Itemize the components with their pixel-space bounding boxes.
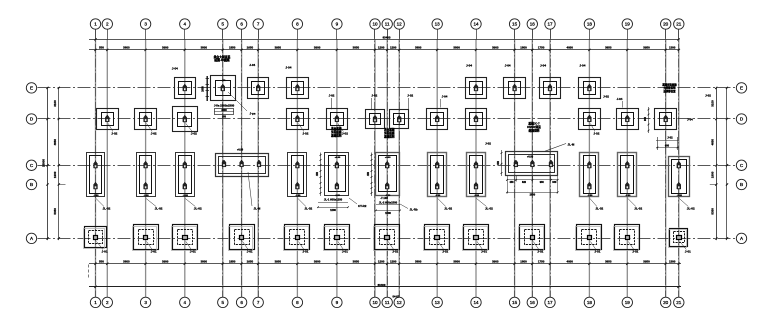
svg-text:J-04: J-04 (617, 97, 623, 101)
svg-text:J-01: J-01 (102, 250, 108, 254)
svg-text:后浇带位置: 后浇带位置 (663, 89, 677, 93)
svg-text:-1.50: -1.50 (587, 195, 593, 197)
svg-text:330: 330 (552, 181, 557, 184)
svg-text:JL-M: JL-M (254, 207, 261, 211)
svg-text:63400: 63400 (378, 283, 386, 287)
svg-text:16: 16 (530, 300, 536, 305)
svg-text:7: 7 (257, 300, 260, 305)
svg-text:18: 18 (587, 22, 593, 27)
svg-text:19: 19 (625, 22, 631, 27)
svg-text:1750: 1750 (538, 46, 545, 50)
svg-text:2: 2 (106, 300, 109, 305)
svg-text:-1.50: -1.50 (474, 195, 480, 197)
svg-text:J-01: J-01 (342, 250, 348, 254)
svg-text:承台基础: 承台基础 (331, 127, 342, 131)
svg-text:6: 6 (240, 22, 243, 27)
svg-text:3800: 3800 (415, 46, 422, 50)
svg-text:2300: 2300 (221, 109, 227, 112)
svg-text:1200: 1200 (390, 46, 397, 50)
svg-text:5: 5 (222, 300, 225, 305)
svg-text:J-04: J-04 (466, 64, 472, 68)
svg-text:8: 8 (296, 22, 299, 27)
svg-text:3900: 3900 (162, 46, 169, 50)
svg-text:JL-02: JL-02 (444, 207, 452, 211)
svg-text:B: B (30, 182, 33, 187)
svg-text:J-02: J-02 (191, 132, 197, 136)
svg-text:1200: 1200 (390, 259, 397, 263)
svg-text:18: 18 (587, 300, 593, 305)
svg-text:JL-02: JL-02 (634, 207, 642, 211)
svg-text:14: 14 (473, 22, 479, 27)
svg-text:450: 450 (497, 160, 500, 165)
svg-text:3900: 3900 (314, 259, 321, 263)
svg-text:+0.00: +0.00 (335, 157, 341, 159)
svg-text:1: 1 (94, 300, 97, 305)
svg-text:3900: 3900 (492, 259, 499, 263)
svg-text:JL-02: JL-02 (194, 207, 202, 211)
svg-text:结施-05图集: 结施-05图集 (213, 58, 229, 62)
svg-text:基础JC-7: 基础JC-7 (528, 122, 540, 126)
svg-text:J-01: J-01 (190, 250, 196, 254)
svg-text:1900: 1900 (711, 171, 715, 178)
svg-text:3900: 3900 (162, 259, 169, 263)
svg-text:3: 3 (144, 300, 147, 305)
svg-text:9: 9 (336, 300, 339, 305)
svg-text:JL-02: JL-02 (485, 207, 493, 211)
svg-text:3800: 3800 (123, 46, 130, 50)
svg-text:3800: 3800 (453, 46, 460, 50)
svg-text:15000: 15000 (42, 159, 46, 167)
svg-text:J-04: J-04 (172, 67, 178, 71)
svg-text:4650: 4650 (53, 139, 57, 146)
svg-text:CT-R2: CT-R2 (358, 204, 367, 208)
svg-text:15: 15 (512, 300, 518, 305)
svg-text:1300: 1300 (669, 46, 676, 50)
svg-text:3800: 3800 (201, 46, 208, 50)
svg-text:1750: 1750 (538, 259, 545, 263)
svg-text:550: 550 (99, 259, 104, 263)
svg-text:14: 14 (473, 300, 479, 305)
svg-text:3100: 3100 (711, 100, 715, 107)
svg-text:1850: 1850 (229, 46, 236, 50)
svg-text:J-02: J-02 (371, 94, 377, 98)
svg-text:820: 820 (522, 181, 527, 184)
svg-text:-1.50: -1.50 (183, 195, 189, 197)
svg-text:-1.50: -1.50 (435, 195, 441, 197)
svg-text:1200: 1200 (378, 259, 385, 263)
svg-text:3950: 3950 (643, 259, 650, 263)
svg-text:3800: 3800 (415, 259, 422, 263)
svg-text:E: E (30, 86, 33, 91)
svg-text:1650: 1650 (247, 259, 254, 263)
svg-text:13: 13 (435, 300, 441, 305)
svg-text:J-01: J-01 (392, 250, 398, 254)
svg-text:-1.50: -1.50 (295, 195, 301, 197)
svg-text:4: 4 (184, 22, 187, 27)
svg-text:J-02: J-02 (407, 94, 413, 98)
svg-text:+0.00: +0.00 (237, 149, 244, 152)
svg-text:J-01: J-01 (481, 250, 487, 254)
svg-text:J-02: J-02 (593, 132, 599, 136)
svg-text:-7.100: -7.100 (380, 196, 388, 200)
svg-text:12: 12 (397, 300, 403, 305)
svg-text:21: 21 (676, 22, 682, 27)
svg-text:5: 5 (222, 22, 225, 27)
svg-text:J-04: J-04 (505, 64, 511, 68)
svg-text:J-5a 2300x2300: J-5a 2300x2300 (214, 104, 235, 108)
svg-text:JL-2 600x1500: JL-2 600x1500 (379, 201, 398, 205)
svg-text:J-01: J-01 (594, 250, 600, 254)
svg-text:结施说明: 结施说明 (529, 129, 540, 133)
svg-text:3950: 3950 (275, 46, 282, 50)
svg-text:3850: 3850 (353, 46, 360, 50)
svg-text:-1.50: -1.50 (94, 195, 100, 197)
svg-text:3650: 3650 (605, 46, 612, 50)
svg-text:1: 1 (94, 22, 97, 27)
svg-text:9: 9 (336, 22, 339, 27)
svg-text:3800: 3800 (123, 259, 130, 263)
svg-text:J-01: J-01 (151, 250, 157, 254)
svg-text:900: 900 (644, 116, 647, 121)
svg-text:3900: 3900 (492, 46, 499, 50)
svg-text:3: 3 (144, 22, 147, 27)
svg-text:12: 12 (397, 22, 403, 27)
svg-text:J-01: J-01 (685, 250, 691, 254)
svg-text:J-02: J-02 (705, 94, 711, 98)
svg-text:1650: 1650 (247, 46, 254, 50)
svg-text:详见结施: 详见结施 (331, 130, 342, 134)
svg-text:7: 7 (257, 22, 260, 27)
svg-text:J-01: J-01 (247, 250, 253, 254)
svg-text:JL-M: JL-M (568, 143, 575, 147)
svg-text:基础说明: 基础说明 (330, 133, 342, 137)
svg-text:1900: 1900 (53, 171, 57, 178)
svg-text:J-04: J-04 (579, 64, 585, 68)
svg-text:550: 550 (99, 46, 104, 50)
svg-text:1850: 1850 (229, 259, 236, 263)
svg-text:J-01: J-01 (442, 250, 448, 254)
svg-text:J-02: J-02 (342, 132, 348, 136)
svg-text:J-02: J-02 (302, 132, 308, 136)
svg-text:4: 4 (184, 300, 187, 305)
svg-text:JL-02: JL-02 (595, 207, 603, 211)
svg-text:J-02: J-02 (485, 142, 491, 146)
svg-text:-1.50: -1.50 (677, 195, 683, 197)
svg-text:J-04: J-04 (540, 64, 546, 68)
svg-text:450: 450 (316, 171, 319, 176)
svg-text:J-01: J-01 (632, 250, 638, 254)
svg-text:11: 11 (385, 300, 390, 305)
svg-text:+0.00: +0.00 (527, 156, 534, 159)
svg-text:JL-02: JL-02 (687, 207, 695, 211)
svg-text:JL-02: JL-02 (155, 207, 163, 211)
svg-text:15: 15 (512, 22, 518, 27)
svg-text:1300: 1300 (669, 259, 676, 263)
svg-text:基础说明: 基础说明 (383, 134, 395, 138)
svg-text:J-02: J-02 (667, 136, 673, 140)
svg-text:3850: 3850 (353, 259, 360, 263)
svg-text:1200: 1200 (330, 208, 336, 212)
svg-text:J-02: J-02 (111, 132, 117, 136)
svg-text:3950: 3950 (643, 46, 650, 50)
svg-text:17: 17 (547, 300, 553, 305)
svg-text:J-04: J-04 (249, 63, 255, 67)
svg-text:J-02: J-02 (603, 95, 609, 99)
svg-text:DN500详见: DN500详见 (527, 125, 541, 129)
svg-text:-1.50: -1.50 (335, 195, 341, 197)
svg-text:4000: 4000 (566, 46, 573, 50)
svg-text:19: 19 (625, 300, 631, 305)
svg-text:J-01: J-01 (302, 250, 308, 254)
svg-text:16: 16 (530, 22, 536, 27)
svg-text:600: 600 (665, 144, 670, 147)
svg-text:930: 930 (540, 181, 545, 184)
svg-text:450: 450 (510, 181, 515, 184)
svg-text:2: 2 (106, 22, 109, 27)
svg-text:04-07: 04-07 (393, 294, 400, 298)
svg-text:3900: 3900 (314, 46, 321, 50)
svg-text:3950: 3950 (275, 259, 282, 263)
svg-text:1500: 1500 (385, 211, 391, 215)
svg-text:JL-Rb: JL-Rb (410, 208, 418, 212)
svg-text:8: 8 (296, 300, 299, 305)
svg-text:详见结施: 详见结施 (384, 131, 395, 135)
svg-text:J-ps: J-ps (250, 112, 256, 116)
svg-text:5350: 5350 (711, 208, 715, 215)
svg-text:E: E (740, 86, 743, 91)
svg-text:J-04: J-04 (442, 95, 448, 99)
svg-text:JL-1 600x1200: JL-1 600x1200 (324, 198, 343, 202)
svg-text:J-02: J-02 (329, 94, 335, 98)
svg-text:4000: 4000 (566, 259, 573, 263)
svg-text:20: 20 (663, 300, 669, 305)
svg-text:6: 6 (240, 300, 243, 305)
svg-text:J-02: J-02 (151, 132, 157, 136)
svg-text:J-04: J-04 (285, 66, 291, 70)
svg-text:+0.00: +0.00 (385, 157, 391, 159)
svg-text:承台基础: 承台基础 (384, 128, 395, 132)
svg-text:B: B (740, 182, 743, 187)
svg-text:450: 450 (367, 171, 370, 176)
svg-text:1850: 1850 (201, 86, 205, 92)
svg-text:11: 11 (385, 22, 390, 27)
svg-text:JL-02: JL-02 (304, 207, 312, 211)
svg-text:5350: 5350 (53, 208, 57, 215)
svg-text:JL-02: JL-02 (103, 207, 111, 211)
svg-text:3650: 3650 (605, 259, 612, 263)
svg-text:350: 350 (222, 116, 227, 119)
svg-text:10: 10 (372, 22, 378, 27)
svg-text:13: 13 (435, 22, 441, 27)
svg-text:1800: 1800 (520, 259, 527, 263)
svg-text:J-04: J-04 (687, 118, 693, 122)
svg-text:63400: 63400 (383, 35, 391, 39)
svg-text:1200: 1200 (378, 46, 385, 50)
svg-text:2530: 2530 (530, 194, 536, 197)
svg-text:10: 10 (372, 300, 378, 305)
svg-text:-1.50: -1.50 (144, 195, 150, 197)
svg-text:3100: 3100 (53, 100, 57, 107)
svg-text:4650: 4650 (711, 139, 715, 146)
svg-text:-1.50: -1.50 (625, 195, 631, 197)
svg-text:21: 21 (676, 300, 682, 305)
svg-text:17: 17 (547, 22, 553, 27)
svg-text:J-01: J-01 (537, 250, 543, 254)
svg-text:3800: 3800 (201, 259, 208, 263)
svg-text:20: 20 (663, 22, 669, 27)
svg-text:1800: 1800 (520, 46, 527, 50)
svg-text:3800: 3800 (453, 259, 460, 263)
